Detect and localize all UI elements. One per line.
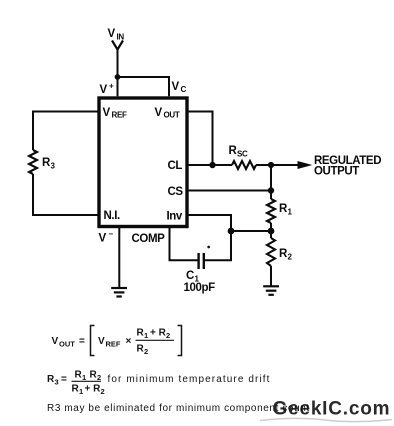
svg-text:+: +: [109, 82, 114, 91]
svg-text:V: V: [108, 28, 116, 40]
wire VIN vertical to V+ pin: [117, 48, 119, 96]
wire VOUT to CL net: [186, 112, 213, 166]
R3 value label: [42, 157, 56, 171]
wire RSC to output node: [256, 164, 299, 166]
node junction Inv/C1: [228, 228, 235, 235]
svg-text:2: 2: [101, 387, 105, 396]
node junction divider: [268, 228, 275, 235]
formula R3 equation: [47, 370, 271, 397]
svg-text:−: −: [109, 230, 114, 239]
svg-text:2: 2: [144, 347, 148, 356]
svg-text:3: 3: [55, 378, 59, 387]
watermark GeekIC.com: [260, 418, 392, 421]
ground (V-): [111, 288, 127, 297]
svg-text:CL: CL: [168, 160, 183, 172]
svg-text:V: V: [99, 233, 107, 245]
svg-text:OUT: OUT: [59, 340, 75, 349]
node junction VIN/VC: [115, 74, 121, 80]
RSC value label: [229, 145, 249, 159]
node junction VOUT/CL: [209, 162, 215, 168]
node junction CS: [268, 187, 274, 193]
VIN input arrowhead: [112, 41, 123, 50]
wire R2 to ground: [270, 266, 272, 286]
ground (R2): [263, 286, 279, 295]
wire CS pin to divider: [186, 190, 271, 192]
wire CL pin to RSC: [186, 164, 232, 166]
wire output node down to R1: [270, 165, 272, 199]
resistor R3: [29, 150, 37, 174]
svg-text:OUTPUT: OUTPUT: [314, 166, 359, 178]
node junction output: [268, 162, 274, 168]
svg-text:V: V: [155, 107, 163, 119]
svg-text:1: 1: [79, 387, 83, 396]
R2 value label: [279, 248, 293, 262]
pin V+ label: [100, 82, 115, 97]
svg-text:CS: CS: [168, 186, 184, 198]
R1 value label: [279, 203, 293, 217]
svg-text:2: 2: [166, 331, 170, 340]
svg-text:GeekIC.com: GeekIC.com: [273, 399, 391, 420]
speck artifact: [207, 246, 210, 249]
svg-text:REF: REF: [112, 111, 128, 120]
svg-text:100pF: 100pF: [184, 282, 216, 294]
svg-text:N.I.: N.I.: [104, 210, 120, 222]
pin VREF label: [103, 107, 128, 120]
svg-text:V: V: [98, 336, 105, 347]
svg-text:2: 2: [288, 253, 293, 262]
svg-text:3: 3: [51, 162, 56, 171]
svg-text:+ R: + R: [150, 328, 167, 339]
wire VREF to R3 top: [33, 112, 99, 151]
node VIN label: [108, 28, 125, 42]
svg-text:for minimum temperature drift: for minimum temperature drift: [108, 374, 271, 385]
svg-text:C: C: [186, 270, 194, 282]
wire R1 to divider node: [270, 223, 272, 238]
svg-text:COMP: COMP: [132, 233, 166, 245]
svg-text:OUT: OUT: [164, 111, 180, 120]
svg-text:R3 may be eliminated for minim: R3 may be eliminated for minimum compone…: [47, 403, 310, 414]
svg-text:IN: IN: [117, 33, 125, 42]
svg-text:Inv: Inv: [167, 211, 183, 223]
pin VOUT label: [155, 107, 180, 120]
wire C1 to Inv node: [204, 231, 231, 260]
svg-text:V: V: [103, 107, 111, 119]
wire Inv pin to divider node: [186, 215, 271, 231]
svg-text:C: C: [181, 85, 187, 94]
wire V- pin to ground: [118, 227, 120, 288]
C1 value label: [186, 270, 200, 284]
svg-text:V: V: [100, 84, 108, 96]
capacitor C1: [199, 253, 204, 269]
svg-text:=: =: [79, 336, 85, 347]
wire junction to VC pin: [118, 77, 170, 96]
wire COMP pin down to C1: [170, 227, 199, 261]
svg-text:×: ×: [126, 336, 132, 347]
formula VOUT equation: [52, 326, 182, 357]
svg-text:1: 1: [82, 373, 86, 382]
resistor RSC: [232, 161, 256, 169]
svg-text:SC: SC: [237, 150, 248, 159]
svg-text:=: =: [61, 374, 67, 385]
svg-text:1: 1: [144, 331, 148, 340]
svg-text:2: 2: [97, 373, 101, 382]
resistor R1: [267, 199, 275, 223]
resistor R2: [267, 238, 275, 266]
IC U1 (voltage regulator) body: [99, 98, 187, 227]
svg-text:V: V: [52, 336, 59, 347]
pin V- label: [99, 230, 114, 245]
svg-text:V: V: [172, 81, 180, 93]
pin VC label: [172, 81, 187, 94]
svg-text:1: 1: [288, 208, 293, 217]
svg-text:+ R: + R: [85, 384, 102, 395]
output arrowhead: [298, 161, 313, 169]
wire R3 bottom to N.I.: [33, 174, 99, 215]
svg-text:REF: REF: [106, 340, 121, 349]
